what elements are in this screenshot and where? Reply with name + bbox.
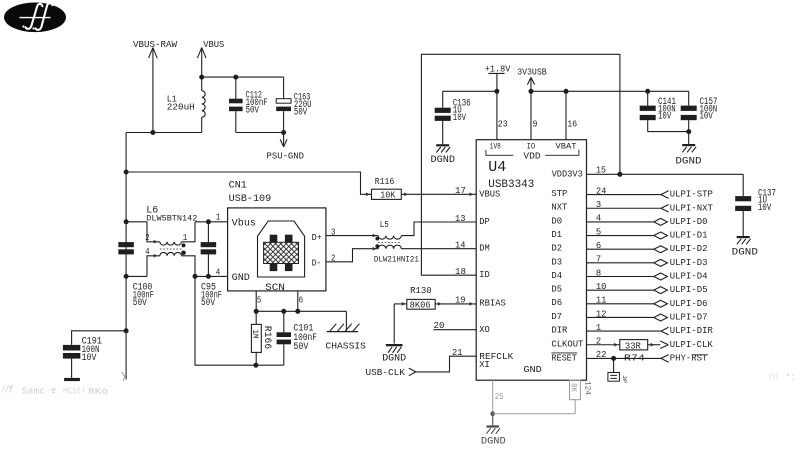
wire R130 to DGND: [393, 304, 395, 344]
svg-text:DLW21HNI21: DLW21HNI21: [374, 255, 419, 264]
U4 pin 3 NXT / net ULPI-NXT: [551, 200, 713, 213]
svg-text:4: 4: [145, 247, 150, 257]
ground PSU-GND: [267, 133, 305, 162]
svg-text:10K: 10K: [380, 191, 396, 201]
svg-text:7: 7: [596, 255, 601, 265]
svg-text:Vbus: Vbus: [232, 217, 256, 229]
U4 pin 20 XO stub: [434, 321, 490, 335]
svg-text:IO: IO: [527, 142, 536, 152]
inductor L1 220uH: [167, 77, 205, 132]
svg-text:3V3USB: 3V3USB: [517, 66, 547, 77]
svg-text:ULPI-D2: ULPI-D2: [670, 244, 708, 254]
U4 pin 10 D5 / net ULPI-D5: [551, 282, 707, 295]
U4 pin 16 (VBAT): [566, 91, 577, 139]
svg-text:ULPI-D5: ULPI-D5: [670, 285, 708, 295]
svg-text:8K: 8K: [569, 383, 578, 392]
svg-text:L5: L5: [380, 220, 389, 230]
wire R116 to U4 VBUS pin 17: [401, 186, 476, 196]
svg-text:ULPI-D6: ULPI-D6: [670, 299, 708, 309]
off-page USB-CLK: [366, 368, 416, 378]
svg-text:1V8: 1V8: [490, 142, 501, 152]
svg-text:13: 13: [455, 214, 466, 224]
ground DGND (C137): [732, 236, 758, 258]
svg-text:DP: DP: [479, 217, 490, 227]
svg-text:D+: D+: [312, 233, 322, 243]
wire R74 to ULPI-CLK: [648, 340, 714, 350]
svg-text:USB-CLK: USB-CLK: [366, 368, 406, 378]
svg-text:MCSt!: MCSt!: [63, 387, 86, 397]
chassis ground symbol: [325, 324, 366, 352]
svg-text:PSU-GND: PSU-GND: [267, 151, 305, 161]
svg-text:D3: D3: [551, 257, 562, 267]
power flag +1.8V: [485, 64, 511, 92]
svg-text:D7: D7: [551, 312, 562, 322]
watermark bottom-left: [1, 385, 108, 398]
svg-text:4: 4: [596, 214, 601, 224]
capacitor C136 1U 10V: [435, 91, 471, 144]
svg-text://f: //f: [1, 385, 14, 397]
wire VBUS-RAW node: [126, 130, 202, 135]
wire C141-C157 gnd: [648, 129, 692, 144]
svg-text:4: 4: [216, 268, 221, 278]
svg-text:1M: 1M: [250, 330, 259, 339]
svg-text:R130: R130: [410, 285, 432, 296]
svg-text:16: 16: [567, 120, 577, 130]
svg-text:6: 6: [299, 295, 304, 305]
wire left trunk: [124, 133, 129, 380]
U4 pin 18 ID label: [479, 270, 490, 280]
svg-text:50V: 50V: [294, 108, 307, 119]
svg-text:2: 2: [331, 254, 336, 264]
wire GND run (L6 pin3 to CN1 pin4): [193, 268, 228, 279]
U4 pin 12 D7 / net ULPI-D7: [551, 309, 707, 322]
svg-text:10: 10: [596, 282, 607, 292]
svg-text:1: 1: [216, 212, 221, 222]
svg-text:DGND: DGND: [382, 352, 406, 364]
wire VBUS node: [199, 75, 283, 80]
svg-text:1: 1: [183, 233, 188, 243]
U4 pin 2 CLKOUT wire: [551, 337, 619, 350]
capacitor C100 100nF 50V: [118, 242, 153, 309]
svg-text:33R: 33R: [625, 341, 642, 351]
ground DGND (C157): [675, 144, 701, 167]
connector CN1 USB-109 body: [228, 208, 326, 294]
ground bar (C191): [64, 378, 80, 381]
svg-text:2: 2: [596, 337, 601, 347]
svg-text:/n: /n: [768, 372, 778, 382]
svg-text:ULPI-NXT: ULPI-NXT: [670, 203, 714, 213]
svg-text:17: 17: [455, 186, 466, 196]
wire shield gnd return: [195, 276, 284, 367]
wire 1.8V rail: [443, 89, 500, 94]
svg-text:DLW5BTN142: DLW5BTN142: [146, 214, 197, 224]
U4 pin 8 D4 / net ULPI-D4: [551, 268, 707, 281]
svg-text:19: 19: [455, 296, 466, 306]
wire end tick (trunk bottom): [122, 372, 125, 381]
svg-text:10V: 10V: [82, 353, 97, 364]
svg-text:DIR: DIR: [551, 326, 568, 336]
svg-text:*:: *:: [786, 373, 795, 383]
resistor R124 8K (pulldown): [569, 380, 593, 400]
U4 pin 25 gnd wire: [490, 380, 575, 416]
resistor R166 1M: [250, 311, 272, 365]
svg-text:11: 11: [596, 296, 607, 306]
svg-text:STP: STP: [551, 189, 567, 199]
CN1 USB receptacle symbol: [258, 221, 305, 277]
svg-text:14: 14: [455, 241, 466, 251]
svg-text:10V: 10V: [453, 113, 466, 124]
wire CN1 D- pin 2: [326, 247, 378, 263]
ground DGND (C136): [431, 144, 456, 166]
capacitor C101 100nF 50V: [277, 311, 317, 365]
op IC U4 USB3343 body: [476, 140, 586, 381]
svg-text:1: 1: [596, 323, 601, 333]
U4 pin 5 D1 / net ULPI-D1: [551, 227, 707, 240]
svg-text:9: 9: [533, 120, 538, 130]
svg-text:3: 3: [596, 200, 601, 210]
watermark right: [768, 372, 795, 383]
wire R130 to U4 RBIAS pin 19: [435, 296, 506, 309]
U4 pin 24 STP / net ULPI-STP: [551, 186, 712, 199]
svg-text:DGND: DGND: [675, 155, 701, 167]
svg-text:D-: D-: [312, 259, 322, 269]
wire trunk to R116: [126, 172, 371, 196]
wire 3.3V rail: [529, 89, 689, 94]
svg-text:50V: 50V: [201, 298, 215, 309]
svg-text:GND: GND: [523, 365, 541, 375]
svg-text:3: 3: [331, 227, 336, 237]
wire USB-CLK to U4 REFCLK pin 21: [416, 348, 514, 372]
capacitor C157 100N 10V: [681, 91, 718, 131]
svg-text:NXT: NXT: [551, 203, 568, 213]
wire shield net: [254, 309, 347, 331]
svg-text:124: 124: [583, 381, 593, 395]
wire U4 VDD3V3 pin 15: [552, 166, 744, 197]
svg-text:ULPI-D1: ULPI-D1: [670, 231, 708, 241]
svg-text:50V: 50V: [293, 342, 308, 353]
svg-text:10V: 10V: [758, 203, 771, 214]
CN1 pin 6: [298, 291, 303, 311]
svg-text:ULPI-CLK: ULPI-CLK: [670, 340, 714, 350]
U4 pin 9 (IO): [531, 91, 538, 139]
svg-text:6: 6: [596, 241, 601, 251]
svg-text:DM: DM: [479, 244, 490, 254]
svg-text:VBUS: VBUS: [479, 190, 500, 200]
svg-text:RESET: RESET: [551, 353, 577, 363]
svg-text:XI: XI: [479, 360, 490, 370]
U4 pin 6 D2 / net ULPI-D2: [551, 241, 707, 254]
resistor R116 10K: [372, 176, 402, 201]
wire trunk to C191: [72, 331, 127, 345]
svg-text:D2: D2: [551, 244, 562, 254]
svg-text:5: 5: [257, 295, 262, 305]
wire L5 to U4 DP pin 13: [401, 214, 490, 236]
U4 pin 23 (1V8): [497, 91, 508, 139]
capacitor C191 100N 10V: [63, 337, 102, 378]
svg-text:50V: 50V: [133, 298, 147, 309]
choke L5 DLW21HNI21: [374, 220, 419, 264]
svg-text:D0: D0: [551, 216, 562, 226]
svg-text:RBIAS: RBIAS: [479, 299, 506, 309]
svg-text:CHASSIS: CHASSIS: [325, 341, 366, 352]
svg-text:D5: D5: [551, 285, 562, 295]
svg-text:2: 2: [145, 233, 150, 243]
svg-text:D1: D1: [551, 230, 562, 240]
svg-text:5: 5: [596, 227, 601, 237]
svg-text:DGND: DGND: [431, 154, 456, 166]
svg-text:CN1: CN1: [229, 180, 247, 191]
svg-text:D6: D6: [551, 298, 562, 308]
U4 pin 4 D0 / net ULPI-D0: [551, 214, 707, 227]
capacitor C112 100nF 50V: [229, 77, 284, 132]
CN1 pin 5: [256, 291, 261, 311]
wire GND run (trunk to L6 pin4): [126, 275, 147, 277]
svg-text:DGND: DGND: [732, 246, 758, 258]
capacitor C95 100nF 50V: [201, 222, 222, 309]
capacitor C137 1U 10V: [735, 188, 776, 236]
U4 pin 1 DIR / net ULPI-DIR: [551, 323, 713, 336]
jumper J1 (reset strap): [608, 358, 628, 383]
svg-text:ULPI-DIR: ULPI-DIR: [670, 326, 714, 336]
U4 pin 7 D3 / net ULPI-D3: [551, 255, 707, 268]
svg-text:VBUS-RAW: VBUS-RAW: [133, 40, 178, 50]
svg-text:D4: D4: [551, 271, 562, 281]
svg-text:8Ko: 8Ko: [88, 386, 108, 397]
wire Vbus run (L6 pin1 to CN1 pin1): [195, 212, 228, 224]
U4 pin 17 VBUS label: [479, 190, 500, 200]
U4 GND label: [523, 365, 541, 375]
svg-text:20: 20: [434, 321, 445, 331]
svg-text:24: 24: [596, 186, 607, 196]
svg-text:25: 25: [495, 392, 504, 402]
svg-text:10V: 10V: [700, 112, 713, 123]
capacitor C141 100N 10V: [640, 91, 676, 131]
svg-text:R166: R166: [261, 326, 272, 350]
svg-text:VBAT: VBAT: [556, 142, 577, 152]
svg-text:ULPI-D3: ULPI-D3: [670, 258, 708, 268]
svg-text:ID: ID: [479, 270, 490, 280]
svg-text:ULPI-STP: ULPI-STP: [670, 190, 713, 200]
resistor R130 8K06: [394, 285, 435, 310]
svg-text:21: 21: [452, 348, 463, 358]
U4 pin 22 RESET / net PHY-RST: [551, 350, 708, 363]
svg-text:VBUS: VBUS: [203, 40, 224, 50]
svg-text:8: 8: [596, 268, 601, 278]
svg-text:12: 12: [596, 309, 607, 319]
company logo: [4, 2, 66, 32]
svg-text:USB-109: USB-109: [229, 194, 272, 205]
svg-text:8K06: 8K06: [410, 301, 431, 311]
svg-text:23: 23: [498, 120, 508, 130]
U4 pin 11 D6 / net ULPI-D6: [551, 296, 707, 309]
svg-text:ULPI-D0: ULPI-D0: [670, 217, 708, 227]
svg-text:Samc: Samc: [22, 387, 45, 397]
svg-text:SCN: SCN: [265, 283, 285, 294]
svg-text:ULPI-D4: ULPI-D4: [670, 272, 708, 282]
ground DGND (R130): [382, 344, 406, 364]
capacitor C163 220U 50V (polarized): [276, 77, 311, 135]
svg-text:ULPI-D7: ULPI-D7: [670, 312, 708, 322]
wire CN1 D+ pin 3: [326, 227, 378, 237]
wire Vbus run (trunk to L6 pin2): [126, 221, 147, 223]
power flag VBUS: [197, 40, 224, 77]
svg-text:JP: JP: [621, 375, 628, 383]
svg-text:18: 18: [455, 267, 466, 277]
svg-text:VDD3V3: VDD3V3: [552, 170, 583, 180]
ground DGND (pin 25): [481, 414, 506, 448]
resistor R74 33R: [620, 340, 648, 364]
svg-text:VDD: VDD: [523, 152, 540, 162]
svg-text:GND: GND: [232, 273, 250, 284]
wire VDD3V3 to ID pin 18: [421, 54, 620, 277]
svg-text:50V: 50V: [246, 106, 259, 117]
connector CN1 labels: [229, 180, 272, 205]
svg-text:220uH: 220uH: [167, 103, 195, 113]
svg-text:XO: XO: [479, 325, 490, 335]
svg-text:15: 15: [596, 166, 606, 176]
svg-text:DGND: DGND: [481, 436, 506, 448]
svg-text:22: 22: [596, 350, 607, 360]
svg-text:CLKOUT: CLKOUT: [551, 340, 584, 350]
svg-text:R116: R116: [375, 176, 395, 187]
svg-text:e: e: [51, 386, 56, 396]
svg-text:U4: U4: [488, 159, 506, 176]
wire L5 to U4 DM pin 14: [401, 241, 490, 254]
power flag VBUS-RAW: [133, 40, 178, 133]
choke L6 DLW5BTN142: [145, 206, 197, 277]
power flag 3V3USB: [517, 66, 547, 91]
svg-text:10V: 10V: [658, 112, 671, 123]
